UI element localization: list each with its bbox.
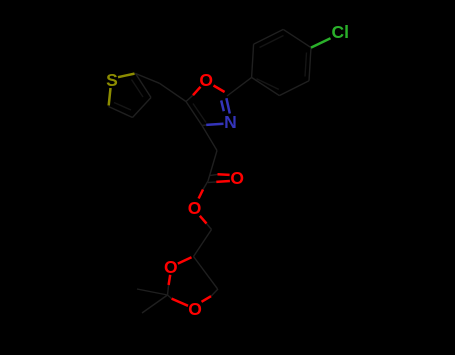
bond O1d-C4d (169, 257, 211, 306)
bond S-C2t (109, 74, 135, 106)
svg-text:O: O (188, 198, 202, 218)
wire linker C2t-V (136, 74, 160, 84)
wire linker V-C5ox (160, 83, 187, 101)
wire CH2b-C4d (194, 230, 212, 257)
bond Cc=O red double (199, 174, 230, 223)
svg-text:N: N (224, 112, 237, 132)
wire chain CH2a-Cc (208, 151, 217, 182)
wire thiophene ring C4-C5 (109, 107, 133, 118)
svg-text:O: O (230, 168, 244, 188)
bond C4b-Cl green (311, 38, 331, 47)
wire methyl M2 (142, 295, 168, 313)
svg-text:S: S (106, 70, 118, 90)
bond C2d-O3d (172, 299, 188, 306)
wire methyl M1 (137, 289, 168, 295)
bond Oe-CH2b (200, 216, 207, 224)
wire thiophene ring C3-C4 (133, 98, 152, 118)
wire oxazole C4=C5 (186, 102, 202, 126)
svg-text:O: O (188, 299, 202, 319)
wire Oe-CH2b gray tail (207, 224, 212, 230)
wire O-C5ox gray tail (186, 95, 193, 101)
wire O1-C2d gray tail (168, 285, 169, 295)
inner double line C4=C5 (114, 103, 131, 111)
svg-text:O: O (164, 257, 178, 277)
wire C4d-C5d (194, 257, 218, 289)
wire C=O gray tails (210, 174, 218, 175)
bond Ooxazole-C5ox (193, 86, 225, 96)
bond S-C5t (109, 88, 111, 106)
wire C2d-O3 gray tail (168, 295, 172, 299)
wire N-C4ox gray tail (202, 124, 206, 127)
bond O3d-C5d (202, 296, 212, 302)
wire Cc-Oe gray tail (203, 181, 208, 190)
wire oxazole C2 - benzene C1 (227, 77, 252, 96)
svg-text:Cl: Cl (332, 22, 350, 42)
bond O1d-C2d (169, 275, 171, 285)
wire linker S-C2t tail (131, 74, 136, 75)
bond N-C4ox (206, 124, 223, 125)
bond C2ox=N blue double (206, 98, 230, 125)
wire O3-C5d gray tail (211, 289, 218, 296)
inner double line C2=C3 (132, 80, 144, 98)
svg-text:O: O (199, 70, 213, 90)
bond Ooxazole-C2ox (214, 86, 225, 93)
bond Cc-Oe red part (199, 190, 203, 199)
wire chain C4ox-CH2a (202, 126, 217, 151)
wire thiophene ring C2-C3 (109, 29, 312, 313)
benzene ring (252, 77, 280, 95)
benzene inner double lines (257, 79, 279, 90)
